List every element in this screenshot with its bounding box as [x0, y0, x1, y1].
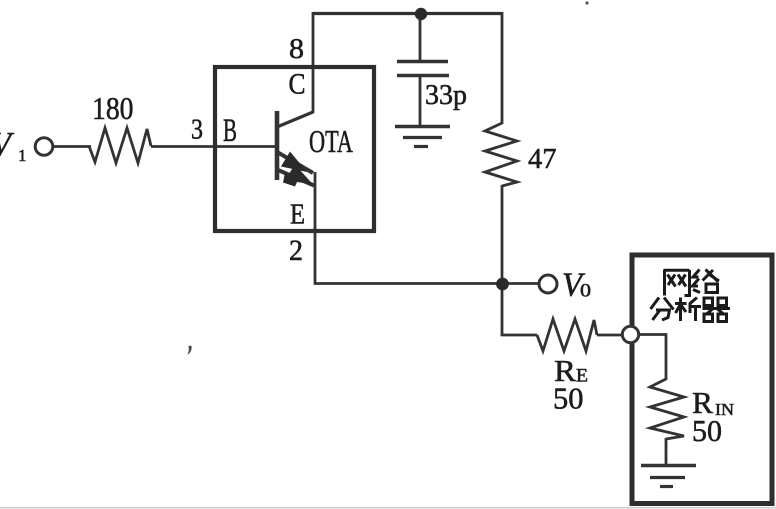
svg-text:8: 8: [289, 33, 304, 65]
svg-text:C: C: [289, 68, 306, 101]
svg-text:50: 50: [692, 413, 722, 448]
svg-text:33p: 33p: [425, 80, 467, 111]
svg-text:3: 3: [191, 115, 203, 146]
svg-text:OTA: OTA: [309, 123, 353, 159]
svg-text:V: V: [0, 126, 15, 163]
svg-text:47: 47: [528, 143, 557, 175]
svg-text:2: 2: [289, 234, 303, 267]
svg-text:E: E: [290, 200, 305, 231]
svg-text:B: B: [223, 113, 237, 149]
svg-text:180: 180: [92, 90, 134, 126]
svg-text:0: 0: [580, 281, 591, 302]
svg-text:50: 50: [553, 381, 584, 416]
svg-text:1: 1: [18, 146, 27, 165]
